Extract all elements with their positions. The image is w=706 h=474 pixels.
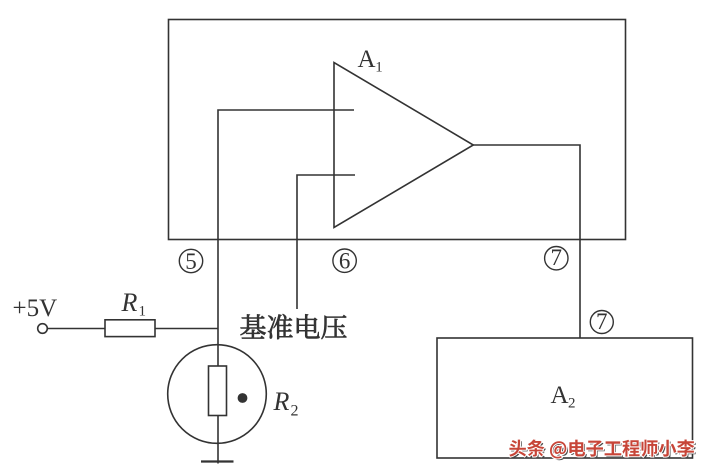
- watermark outline: [509, 440, 526, 457]
- terminal: +5V input: [38, 324, 48, 334]
- op-amp block outer box: [169, 20, 626, 240]
- wire: non-inverting input of A1 to node 5 and down to R1 junction / R2: [218, 110, 354, 366]
- photoresistor R2: resistor body: [209, 366, 227, 416]
- photoresistor R2: envelope circle: [168, 345, 267, 444]
- svg-text:2: 2: [291, 403, 299, 420]
- wire: R1 to junction with node-5 wire: [155, 328, 218, 330]
- wire: R2 bottom to ground: [217, 416, 219, 464]
- watermark shadow: [511, 441, 528, 458]
- node 6 circle: [333, 249, 356, 272]
- wire: inverting input of A1 down to reference-voltage label: [297, 175, 355, 309]
- dot marker inside R2: [238, 393, 248, 403]
- svg-text:A: A: [551, 382, 569, 409]
- svg-text:R: R: [273, 387, 290, 416]
- node 5 circle: [179, 249, 202, 272]
- op-amp U1 (A1 triangle): [334, 63, 473, 228]
- svg-text:1: 1: [139, 304, 147, 320]
- watermark text 头条@电子工程师小李: [509, 440, 526, 457]
- svg-text:R: R: [121, 288, 138, 317]
- svg-text:7: 7: [596, 309, 608, 334]
- node 7 circle: [545, 247, 568, 270]
- ground: [201, 460, 234, 462]
- svg-text:6: 6: [339, 249, 351, 274]
- svg-text:A: A: [358, 46, 376, 73]
- label: reference voltage 基准电压: [241, 314, 266, 338]
- wire: A1 output to node 7 and down to A2: [473, 145, 580, 338]
- svg-text:2: 2: [568, 396, 576, 412]
- block A2: [437, 338, 693, 458]
- node 7 circle at A2 input: [590, 311, 613, 334]
- svg-text:5: 5: [185, 249, 197, 274]
- wire: +5V terminal to resistor R1: [48, 328, 106, 330]
- svg-text:+5V: +5V: [13, 295, 58, 322]
- resistor R1: [105, 320, 155, 337]
- svg-text:1: 1: [375, 60, 383, 76]
- svg-text:7: 7: [551, 245, 563, 270]
